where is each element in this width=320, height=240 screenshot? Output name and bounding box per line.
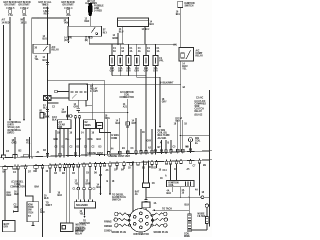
label K3 right bbox=[196, 50, 204, 58]
wire stub y102.9 bbox=[48, 102, 59, 104]
svg-text:YEL: YEL bbox=[80, 214, 85, 216]
svg-text:FILTER: FILTER bbox=[198, 216, 206, 218]
wire x127.7 down bbox=[127, 101, 129, 153]
wire B+ down bbox=[190, 142, 192, 151]
svg-text:10A: 10A bbox=[22, 14, 27, 17]
junction dot 92.3,84.3 bbox=[92, 84, 93, 85]
junction dot 180.3,84.3 bbox=[180, 84, 181, 85]
svg-text:14 RED: 14 RED bbox=[94, 10, 102, 13]
tick below C2 text bbox=[127, 99, 129, 101]
coil tower box bbox=[188, 214, 192, 232]
spark plug L2 bbox=[114, 218, 129, 221]
wire coil wire line bbox=[155, 209, 189, 211]
text block at-compressor bbox=[195, 97, 207, 117]
svg-text:25A: 25A bbox=[66, 14, 71, 17]
junction dot 38,18 bbox=[37, 17, 38, 18]
wire battery feed x5 bbox=[4, 169, 6, 220]
small box BX3 bbox=[97, 123, 103, 129]
A/C relay K3 box bbox=[179, 47, 194, 61]
tick below inline box bbox=[126, 126, 129, 128]
wire box2 to bus3 bbox=[119, 66, 121, 76]
label coil out a bbox=[167, 190, 172, 196]
extra pin labels above ECU left bbox=[6, 150, 47, 154]
fuse row drop 3 bbox=[128, 44, 130, 55]
junction dot x47.5 y102.9 bbox=[47, 102, 48, 103]
text block TXB2 bbox=[158, 130, 170, 140]
svg-text:(A) 4A: (A) 4A bbox=[176, 117, 183, 120]
wire x199.5 down bbox=[199, 163, 201, 196]
comb wire x119.8 bbox=[119, 118, 121, 154]
comb labels row1 bbox=[57, 132, 95, 135]
label x136 bbox=[132, 120, 137, 126]
label C3 below bbox=[176, 12, 181, 17]
svg-text:STALL) (LK: STALL) (LK bbox=[8, 126, 21, 129]
svg-text:GRY: GRY bbox=[62, 112, 67, 114]
wire C2 out left bbox=[122, 27, 124, 45]
svg-text:RLY: RLY bbox=[103, 32, 108, 34]
svg-text:4A: 4A bbox=[182, 189, 185, 192]
wire main bus B1 bbox=[106, 43, 176, 45]
junction dot 127.7,112.7 bbox=[127, 112, 128, 113]
wire box6 to bus4 bbox=[155, 66, 157, 78]
svg-text:BATT: BATT bbox=[4, 223, 10, 226]
wire bridge y105.8 bbox=[86, 105, 92, 107]
svg-text:GRY: GRY bbox=[74, 106, 79, 108]
wire coil out b bbox=[179, 187, 181, 197]
svg-text:ORG: ORG bbox=[12, 143, 17, 145]
injector box 2 bbox=[118, 56, 123, 66]
wire K1 output bbox=[47, 53, 49, 103]
junction dot 180.3,197.2 bbox=[180, 197, 181, 198]
wire sensor down bbox=[206, 207, 208, 216]
tiny box far left bbox=[40, 113, 44, 119]
label out b bbox=[85, 37, 93, 42]
wire hline y230 bbox=[191, 229, 207, 231]
wire IB out bbox=[145, 188, 147, 200]
svg-text:SENS: SENS bbox=[85, 125, 92, 127]
svg-text:GRY: GRY bbox=[162, 102, 167, 104]
arrow solenoid output bbox=[84, 216, 86, 218]
node HOT-AT-ALL-TIMES header 5 bbox=[85, 0, 97, 5]
spark plug L3 bbox=[115, 224, 129, 227]
text block fuse connector bbox=[10, 182, 25, 189]
label drop5 bbox=[147, 48, 151, 53]
stub x29.5 below block bbox=[29, 137, 31, 157]
comb labels row2 bbox=[54, 139, 102, 141]
left text block A/T module bbox=[8, 121, 22, 134]
wire coil out a bbox=[172, 187, 174, 192]
svg-text:BLU: BLU bbox=[176, 14, 181, 16]
svg-text:153624: 153624 bbox=[104, 230, 112, 233]
svg-text:BLU: BLU bbox=[150, 24, 155, 26]
inline connector circle left bbox=[55, 90, 58, 93]
comb wire x152 bbox=[151, 129, 153, 153]
wire NSS b bbox=[68, 167, 70, 223]
node HOT-IN-RUN header 4 bbox=[61, 2, 74, 7]
wire into solenoid a bbox=[77, 190, 79, 200]
junction dot 180.3,135.6 bbox=[180, 135, 181, 136]
fuse F2 bbox=[21, 8, 30, 17]
label x110 bbox=[107, 181, 116, 183]
wire long drop x156.5 bbox=[155, 77, 157, 153]
svg-text:SHIFT: SHIFT bbox=[46, 205, 53, 207]
inline box on x127.7 bbox=[126, 122, 129, 126]
label K1 output bbox=[43, 56, 48, 62]
resistor box right bbox=[206, 217, 209, 224]
svg-text:STARTER: STARTER bbox=[79, 222, 90, 225]
ignition relay box bbox=[68, 26, 102, 36]
fuse row drop 5 bbox=[145, 44, 147, 55]
wire to coil a bbox=[170, 164, 172, 181]
label x180 lower bbox=[176, 117, 183, 123]
svg-text:OR START: OR START bbox=[62, 4, 74, 7]
svg-text:RELAY: RELAY bbox=[75, 233, 83, 236]
sensor circle right bbox=[205, 204, 208, 207]
label drop6 bbox=[157, 48, 161, 53]
label starter feeds bbox=[75, 181, 91, 186]
svg-text:RELAY: RELAY bbox=[195, 110, 203, 113]
svg-text:WIRE: WIRE bbox=[184, 236, 190, 237]
fusible link F3 labels bbox=[43, 8, 50, 15]
wire starter feed a bbox=[77, 167, 79, 187]
A/C relay K3 coil bbox=[181, 53, 184, 58]
label jog bbox=[111, 135, 120, 140]
label relay K1 right bbox=[52, 46, 60, 52]
wire box1 to bus3 bbox=[111, 66, 113, 76]
svg-text:(B) A12: (B) A12 bbox=[195, 114, 204, 117]
arrow into block x24 bbox=[23, 119, 25, 121]
extra pin labels below ECU bbox=[28, 165, 207, 174]
wire fuse F1 output bbox=[9, 17, 11, 120]
svg-text:RED: RED bbox=[7, 195, 12, 197]
label starter motor rows bbox=[75, 228, 86, 236]
drop x182.8 bbox=[182, 120, 184, 151]
svg-text:BLU: BLU bbox=[43, 39, 48, 41]
spark plug R1 bbox=[153, 212, 167, 215]
svg-text:A/T: A/T bbox=[2, 19, 6, 22]
svg-text:BRN: BRN bbox=[86, 183, 91, 185]
label left of ignition switch bbox=[14, 205, 19, 210]
svg-text:SWITCH: SWITCH bbox=[185, 5, 194, 7]
wire resistor down bbox=[206, 224, 208, 231]
arrow x100.5 bbox=[100, 194, 102, 196]
wire into BX1 top bbox=[66, 106, 68, 120]
label NSS right bbox=[76, 224, 87, 232]
svg-text:COIL: COIL bbox=[169, 185, 175, 187]
pin number labels below box bbox=[3, 168, 191, 178]
label x18 bbox=[14, 192, 19, 197]
relay K1 contact bbox=[43, 46, 48, 51]
wire bus3 bbox=[112, 75, 146, 77]
svg-text:4A: 4A bbox=[157, 50, 160, 53]
junction dot 25.5,196 bbox=[25, 195, 26, 196]
label NSS wires bbox=[58, 193, 63, 198]
wire box4 to bus4 bbox=[136, 66, 138, 78]
ECU internal pin ticks bbox=[4, 152, 200, 167]
svg-text:DISTRIBUTOR: DISTRIBUTOR bbox=[134, 234, 150, 236]
label below dot bbox=[43, 104, 48, 110]
injector box 4 bbox=[134, 56, 139, 66]
label feed x118 bbox=[113, 34, 118, 40]
spark plug R2 bbox=[153, 218, 168, 221]
svg-text:RED: RED bbox=[85, 21, 90, 23]
short stubs mid-left below bbox=[56, 166, 96, 171]
svg-text:FIRING: FIRING bbox=[104, 222, 112, 224]
wire hline y80.2 bbox=[48, 80, 105, 154]
wire K2 output stub bbox=[77, 100, 79, 108]
comb wire x107.8 bbox=[107, 119, 109, 154]
label relay right bbox=[103, 30, 108, 35]
svg-text:ITCH: ITCH bbox=[28, 212, 34, 214]
junction dot K1 top bbox=[47, 44, 48, 45]
arrow tach bbox=[153, 209, 156, 211]
fuse row drop 6 bbox=[155, 44, 157, 55]
wire relay out b to bus bbox=[89, 36, 106, 44]
svg-text:OR START: OR START bbox=[4, 4, 16, 7]
ECU top pin bumps bbox=[1, 149, 191, 158]
C2 text block mid bbox=[119, 92, 134, 99]
svg-text:7.5A: 7.5A bbox=[8, 14, 13, 17]
wire header3 feed bbox=[47, 7, 49, 45]
svg-text:(B): (B) bbox=[85, 40, 88, 42]
fuse F1 bbox=[7, 8, 16, 17]
comb wire x90 bbox=[89, 129, 91, 155]
wire fusible link output bbox=[89, 16, 91, 26]
label B+ right bbox=[195, 138, 201, 145]
wire starter feed b bbox=[83, 167, 85, 187]
svg-text:GRY: GRY bbox=[132, 123, 137, 125]
wire into solenoid c bbox=[89, 190, 91, 200]
svg-text:RELAY: RELAY bbox=[90, 87, 98, 90]
svg-text:16R: 16R bbox=[14, 207, 19, 209]
connector box C2 top right bbox=[118, 18, 149, 27]
wire x25.5 to ignition switch bbox=[26, 169, 34, 202]
ECU bottom pin bumps bbox=[3, 160, 201, 169]
svg-text:(A) MODULE: (A) MODULE bbox=[8, 121, 22, 124]
junction dot bus4 x155.5 bbox=[155, 77, 156, 78]
wire x42.5 long bbox=[42, 168, 44, 237]
wire y197.2 cont bbox=[204, 196, 210, 198]
label left edge mid bbox=[52, 107, 58, 122]
svg-text:14 GRY: 14 GRY bbox=[90, 90, 98, 93]
svg-text:YEL: YEL bbox=[182, 69, 187, 71]
svg-text:ENGINE CONT: ENGINE CONT bbox=[88, 153, 104, 155]
svg-text:YEL: YEL bbox=[75, 183, 80, 185]
label below connector bbox=[43, 114, 50, 119]
label C2 out left bbox=[119, 28, 124, 34]
solenoid top pins bbox=[77, 200, 93, 202]
svg-text:4A: 4A bbox=[138, 50, 141, 53]
label right of box6 bbox=[159, 58, 164, 63]
label wire 14RED bbox=[2, 19, 10, 25]
short stubs mid below bbox=[117, 164, 157, 169]
diagnostic X-box bbox=[44, 96, 52, 101]
svg-text:4A: 4A bbox=[167, 190, 170, 193]
wire NSS a bbox=[66, 167, 68, 223]
svg-text:4A: 4A bbox=[147, 50, 150, 53]
fuse row drop 4 bbox=[136, 44, 138, 55]
injector box 1 bbox=[110, 56, 115, 66]
drop x161.5 bbox=[161, 140, 163, 152]
fuse row drop 1 bbox=[111, 44, 113, 55]
inline connector circle y197.2 bbox=[201, 196, 204, 199]
junction dot 87.5,84.3 bbox=[86, 84, 87, 85]
plug rim terminals right bbox=[151, 214, 154, 226]
drop x166 bbox=[165, 140, 167, 152]
svg-text:14 RED: 14 RED bbox=[2, 21, 10, 24]
svg-text:4A: 4A bbox=[121, 50, 124, 53]
injector box 6 bbox=[153, 56, 158, 66]
svg-text:A21: A21 bbox=[123, 105, 128, 108]
label wire 18LG bbox=[21, 20, 28, 25]
connector box C2 inner line bbox=[118, 19, 149, 21]
svg-text:STARTER: STARTER bbox=[75, 228, 86, 231]
comb wire x64 bbox=[63, 129, 65, 156]
svg-text:GRY: GRY bbox=[147, 141, 152, 143]
wire bus y18 bbox=[32, 17, 69, 19]
ECU box bottom edge bbox=[0, 160, 212, 167]
label left of coil bbox=[160, 175, 167, 181]
spark plug R3 bbox=[153, 224, 167, 227]
label wire TAN bbox=[64, 19, 69, 25]
pin labels above box right bbox=[111, 145, 189, 150]
neutral safety switch box bbox=[61, 223, 74, 232]
svg-text:ORDER: ORDER bbox=[104, 226, 113, 228]
svg-text:18 LG: 18 LG bbox=[21, 22, 28, 24]
svg-text:BLK: BLK bbox=[54, 139, 59, 141]
drop x171 bbox=[170, 140, 172, 152]
wire hline y135.6 bbox=[180, 135, 209, 137]
wire to coil b bbox=[176, 164, 178, 181]
battery box bbox=[3, 221, 16, 232]
wire hline y112.7 bbox=[78, 110, 127, 112]
label battery wire bbox=[7, 193, 12, 198]
label K2 output bbox=[74, 103, 79, 109]
ignition coil box bbox=[167, 181, 195, 188]
svg-text:BRN: BRN bbox=[113, 38, 118, 40]
inline connector ticks x146 bbox=[144, 200, 147, 202]
wire drop x31.5 bbox=[31, 18, 33, 157]
svg-text:SWITCH: SWITCH bbox=[112, 200, 121, 202]
comb wire x60 bbox=[59, 129, 61, 156]
stub x15 below block bbox=[14, 137, 16, 157]
svg-text:BLK: BLK bbox=[58, 195, 63, 197]
svg-text:4A: 4A bbox=[154, 202, 157, 205]
wire C3 down to AC relay bbox=[179, 8, 181, 48]
inline connector x47.5 bbox=[46, 63, 49, 65]
labels drops bbox=[160, 142, 170, 145]
svg-text:A/C: A/C bbox=[52, 46, 56, 49]
svg-text:BLK: BLK bbox=[97, 139, 102, 141]
distributor cap box bbox=[142, 202, 150, 208]
wire x18 down bbox=[14, 169, 19, 212]
label coil out b bbox=[182, 189, 185, 195]
labels drops2 bbox=[174, 124, 188, 126]
label under box3 bbox=[126, 67, 131, 73]
wire solenoid output bbox=[84, 208, 86, 216]
inline connector ticks x47.5 bbox=[46, 110, 49, 112]
svg-text:CONN: CONN bbox=[111, 138, 118, 140]
svg-text:GEAR: GEAR bbox=[59, 123, 66, 126]
arrow bus4 end bbox=[159, 126, 161, 128]
svg-text:ORG: ORG bbox=[88, 139, 93, 141]
arrow x110 bbox=[109, 194, 111, 196]
label under box6 bbox=[153, 67, 158, 73]
label wire 12RED bbox=[85, 19, 90, 24]
border right vline bbox=[209, 90, 211, 227]
wire relay out a bbox=[68, 36, 70, 40]
wire fuse F4 output bbox=[68, 17, 70, 26]
comb wire x141 bbox=[140, 129, 142, 153]
label x100.5 bbox=[97, 184, 102, 190]
junction dot 47.5,80.2 bbox=[47, 80, 48, 81]
fuse F4 bbox=[65, 7, 74, 17]
wire x133 BAT long bbox=[132, 162, 134, 211]
wire feed A left long bbox=[3, 25, 5, 155]
label x199.5 bbox=[195, 189, 205, 195]
comb wire x86 lower bbox=[85, 129, 87, 156]
svg-text:YEL: YEL bbox=[26, 143, 31, 145]
comb wire x56 bbox=[55, 130, 57, 156]
label stub x15 bbox=[12, 140, 17, 145]
svg-text:BLU: BLU bbox=[119, 31, 124, 33]
junction dot 86,105.8 bbox=[85, 105, 86, 106]
wire into cap bbox=[145, 200, 147, 203]
junction dot bus3 x146 bbox=[145, 75, 146, 76]
wire into solenoid b bbox=[83, 190, 85, 200]
labels K3 output bbox=[182, 63, 188, 71]
node HOT-IN-RUN header 2 bbox=[17, 2, 30, 7]
svg-text:B6A: B6A bbox=[35, 186, 40, 189]
fuse row drop 2 bbox=[119, 44, 121, 55]
junction dot bus 155.5 bbox=[155, 44, 156, 45]
wire long line y84.3 bbox=[88, 83, 181, 85]
node HOT-AT-ALL-TIMES header 3 bbox=[38, 1, 52, 7]
arrow into block x10 bbox=[9, 119, 11, 121]
comb labels row3 bbox=[55, 147, 103, 149]
distributor rotor terminals bbox=[133, 212, 148, 229]
ignition relay terminal circle bbox=[96, 33, 98, 35]
label x50 bbox=[46, 203, 53, 208]
svg-text:BLK: BLK bbox=[97, 187, 102, 189]
svg-text:ENGINE CONT UNIT: ENGINE CONT UNIT bbox=[109, 156, 131, 158]
svg-text:4A: 4A bbox=[195, 189, 198, 192]
wire pair into IB box bbox=[144, 162, 149, 183]
svg-text:(A) AT A/C: (A) AT A/C bbox=[195, 100, 206, 103]
label right of ignition switch bbox=[40, 210, 45, 215]
svg-text:A/C: A/C bbox=[196, 50, 200, 53]
svg-text:4A: 4A bbox=[182, 86, 185, 89]
label drop2 bbox=[121, 48, 125, 53]
label stub x29.5 bbox=[26, 140, 31, 145]
wire starter feed c bbox=[89, 167, 91, 188]
relay K2 coil dashes bbox=[71, 91, 87, 93]
label under box1 bbox=[110, 67, 115, 73]
label x42.5 bbox=[44, 196, 49, 201]
svg-text:ERY: ERY bbox=[4, 227, 9, 229]
wire x47.5 lower bbox=[47, 103, 49, 156]
ignition switch box bbox=[27, 202, 39, 222]
wire x50 bbox=[49, 168, 51, 193]
distributor circle bbox=[129, 209, 153, 233]
svg-text:BLK: BLK bbox=[52, 119, 57, 121]
ignition relay contact bbox=[91, 27, 95, 32]
wire x100.5 down bbox=[100, 166, 102, 193]
label under box4 bbox=[134, 67, 139, 73]
svg-text:14 BLU: 14 BLU bbox=[142, 28, 150, 31]
junction dot feed x118 bbox=[117, 44, 118, 45]
junction dot 68.5,18 bbox=[68, 17, 69, 18]
